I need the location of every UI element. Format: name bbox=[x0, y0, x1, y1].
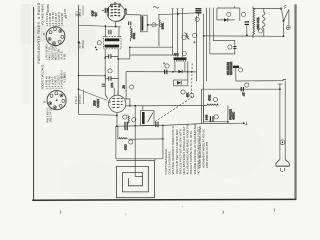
rectifier dark bar bbox=[233, 66, 239, 68]
node dot on sloped wire bbox=[177, 13, 179, 15]
wire: x=115.9 vertical from 126 bbox=[115, 126, 117, 159]
jack line top tick bbox=[278, 83, 283, 85]
wire: x=196.4 long vertical bbox=[195, 16, 197, 81]
wire: IFT2 right lead to bus bbox=[147, 24, 159, 26]
cap C-a on chain bbox=[105, 54, 118, 58]
IFT1 winding bar 2 bbox=[105, 45, 120, 48]
box right side bbox=[283, 21, 285, 37]
wire: x=117.9 down to resistor y=139 bbox=[117, 126, 119, 139]
svg-text:GT: GT bbox=[94, 12, 98, 16]
pin marks near 96,48 bbox=[95, 47, 97, 49]
wire: y=55 horizontal AVC bbox=[130, 54, 173, 56]
node dot y=89 on jack line bbox=[279, 88, 281, 90]
callout inside det box bbox=[228, 45, 232, 49]
svg-text:470K: 470K bbox=[132, 33, 136, 39]
jack dome bbox=[276, 160, 290, 167]
svg-text:AVC: AVC bbox=[174, 53, 179, 57]
label 18.3 455-4 top bbox=[74, 9, 82, 17]
wire: y=81 horizontal to jack bbox=[236, 79, 286, 81]
electrolytic cap block at 198,9-14 bbox=[195, 9, 201, 16]
socket 2 pin voltage list bbox=[46, 106, 53, 122]
svg-text:VOLTAGE MEAS.: VOLTAGE MEAS. bbox=[41, 3, 45, 25]
svg-text:3-30: 3-30 bbox=[205, 114, 209, 120]
callout above C-d bbox=[123, 115, 127, 119]
bus line 2 x=177.5 bbox=[177, 9, 179, 58]
tube V2 converter envelope bbox=[109, 95, 126, 112]
tick on y=8 wire bbox=[234, 6, 236, 8]
wire: below IFT1 down chain x=105.2 bbox=[105, 49, 108, 99]
callout above R-e bbox=[213, 98, 217, 102]
svg-text:OSC: OSC bbox=[124, 144, 128, 150]
tuning comb bar bbox=[174, 57, 187, 60]
svg-text:OSC COIL: OSC COIL bbox=[256, 16, 260, 29]
node dot bbox=[172, 71, 174, 73]
node dot switch pivot bbox=[283, 20, 285, 22]
node dot bbox=[117, 58, 119, 60]
svg-text:AND 1500 KC IF 455: AND 1500 KC IF 455 bbox=[205, 141, 209, 168]
svg-text:123456: 123456 bbox=[47, 4, 50, 13]
callout circle R bbox=[152, 23, 156, 27]
border right frame inner bbox=[295, 4, 297, 200]
wire: IFT1 left lead bbox=[104, 26, 106, 37]
small cap at 155.5-158.5,121.5-127.5 bbox=[156, 122, 158, 127]
tube V2 grid dashes bbox=[112, 98, 122, 107]
wire: corner at 126,71.5 going right y=71.8 bbox=[126, 71, 196, 73]
wire: y=126 long horizontal sloping to 123 bbox=[117, 123, 244, 126]
callout under cap block bbox=[195, 17, 199, 21]
circled plus terminal bbox=[286, 26, 290, 30]
bus line x=206.6 bbox=[206, 8, 208, 81]
svg-text:1T4: 1T4 bbox=[110, 82, 114, 87]
wire: x=239.8 vertical bbox=[239, 8, 241, 21]
bus line 1 x=172.5 bbox=[172, 9, 174, 55]
switch ticks bbox=[284, 5, 287, 8]
svg-text:RECTIFIER: RECTIFIER bbox=[230, 62, 233, 75]
BOTTOM bbox=[60, 124, 275, 216]
svg-text:D 90: D 90 bbox=[63, 72, 67, 78]
callout on dashed line bbox=[190, 93, 194, 97]
wire: y=35.9 long horizontal bbox=[204, 35, 284, 37]
dashed gang line bbox=[155, 62, 192, 121]
svg-text:B: B bbox=[42, 33, 46, 35]
callout circle left of IFT1 bbox=[97, 41, 101, 45]
coil2 stubs bbox=[263, 8, 265, 12]
cap on y=89 bbox=[241, 87, 243, 91]
pen mark 5 bbox=[273, 208, 276, 211]
svg-text:.22: .22 bbox=[122, 85, 126, 89]
node dots right of D1 bbox=[187, 71, 189, 73]
wire: x=187.8 vertical bbox=[187, 61, 189, 80]
svg-text:1R5 1T4 1S5: 1R5 1T4 1S5 bbox=[49, 106, 53, 122]
IFT1 primary cap bbox=[109, 30, 111, 35]
plus mark near 194.4,42 bbox=[193, 41, 195, 43]
osc coil dark bar bbox=[142, 112, 145, 124]
plug tip small bbox=[282, 171, 284, 173]
cap C-b on chain bbox=[105, 76, 118, 80]
oscillator tall winding x=253 bbox=[253, 6, 255, 37]
node dot bbox=[129, 105, 131, 107]
MAIN SCHEMATIC bbox=[77, 3, 291, 177]
svg-text:47K: 47K bbox=[185, 93, 189, 98]
wire: vertical x=126 from corner down to tube2 bbox=[125, 72, 127, 99]
wire: IFT1 right lead bbox=[118, 27, 120, 37]
tube V1 arc grid lead right bbox=[116, 13, 126, 22]
socket 2 bbox=[47, 91, 66, 110]
node dot bbox=[134, 105, 136, 107]
bus tops serifs bbox=[171, 8, 183, 10]
node dots on y=126 wire bbox=[116, 125, 118, 127]
node dot at padder box corner bbox=[227, 121, 229, 123]
socket 1 bbox=[46, 27, 65, 46]
svg-text:455KC: 455KC bbox=[81, 40, 85, 49]
wire: x=216.9 stub bbox=[216, 8, 218, 20]
node dot bbox=[162, 138, 164, 140]
wire: long antenna vertical line x=78.5 bbox=[78, 5, 80, 115]
node dot bbox=[246, 35, 248, 37]
callout right of R-c bbox=[132, 118, 136, 122]
wire: loop feed x=134.8 down into spiral bbox=[135, 106, 142, 177]
border bottom line bbox=[32, 198, 296, 201]
label 3S-8 455 KC bbox=[78, 40, 85, 49]
pen mark 3 bbox=[181, 206, 184, 208]
switch throw line bbox=[284, 9, 289, 25]
IFT2 box bbox=[140, 15, 147, 32]
svg-text:.05: .05 bbox=[242, 92, 246, 96]
callout near 241.8,14.9 bbox=[242, 12, 246, 16]
wire: y=89 horizontal bbox=[201, 88, 280, 90]
wire: y=47 horizontal bbox=[130, 46, 173, 48]
end tick at 246.8,123 bbox=[245, 122, 247, 125]
tube V2 cap tick left bbox=[108, 101, 111, 102]
callout circle above cap bbox=[165, 64, 169, 68]
wire: horizontal y=75.6 to cap chain bbox=[79, 75, 106, 77]
bus line 3 x=182.5 bbox=[182, 9, 184, 58]
voltage table 2 rows bbox=[45, 75, 67, 90]
tick at antenna line top bbox=[77, 14, 81, 16]
node dot bbox=[203, 35, 205, 37]
tube V1 grid-cap hook left bbox=[107, 9, 108, 11]
wire: x=235.8 vertical to y=81 bbox=[235, 68, 237, 81]
wire: tube V2 right pin to y=98.9 jog bbox=[125, 99, 130, 106]
resistor R-a vertical below V1 arc bbox=[131, 26, 133, 41]
jack line left x=279.9 bbox=[279, 84, 281, 160]
node dot bbox=[147, 24, 149, 26]
pen mark 4 bbox=[222, 211, 225, 214]
node dot bbox=[129, 47, 131, 49]
diode D2 box bbox=[174, 80, 188, 86]
callout + text right of D2 box bbox=[181, 90, 185, 94]
callout at end of R-d bbox=[129, 140, 133, 144]
cap C-c on chain bbox=[102, 84, 106, 86]
notes text block bbox=[164, 124, 209, 175]
node dot at 117,115.5 bbox=[116, 115, 118, 117]
callout circle on chain bbox=[108, 69, 112, 73]
svg-text:SOCKET VOLTAGE: SOCKET VOLTAGE bbox=[40, 64, 44, 89]
cap at 244-249, 22-25 bbox=[245, 22, 249, 25]
tube V1 top pin circles bbox=[110, 4, 112, 6]
bus line x=209.8 bbox=[209, 8, 211, 54]
cap C-d dark bars at 125-128,122-129 bbox=[125, 122, 127, 130]
jack line right x=285.2 bbox=[284, 81, 286, 160]
wire: arc end to top-right wire bbox=[125, 9, 127, 14]
svg-text:100K: 100K bbox=[160, 23, 164, 29]
node dot bbox=[115, 26, 117, 28]
IFT2 winding dark bar bbox=[141, 16, 143, 30]
callout right of padder cap bbox=[214, 115, 218, 119]
wire: y=14.9 from arc to IFT2 box bbox=[126, 14, 140, 16]
callout circle near comb bbox=[182, 52, 186, 56]
wire: y=19.9 with diode D3 bbox=[217, 19, 235, 21]
wire: IFT1 right lead long vertical to tube V2 bbox=[117, 49, 119, 95]
svg-text:B 85: B 85 bbox=[63, 53, 67, 59]
socket 1 pin voltage list bbox=[45, 44, 61, 60]
cap above R-a bbox=[129, 21, 131, 25]
tube V1 grid dashes bbox=[109, 6, 121, 16]
node dot chain bbox=[104, 57, 106, 59]
node dot on antenna line y=75.5 bbox=[78, 75, 80, 77]
bracket line by 18.3 label bbox=[82, 6, 84, 16]
svg-text:455KC: 455KC bbox=[231, 112, 235, 120]
jack tip ticks bbox=[280, 168, 284, 171]
comb legs bbox=[174, 62, 176, 72]
border right frame outer bbox=[294, 5, 296, 200]
voltage table 1 rows bbox=[45, 9, 67, 27]
jack dome base line bbox=[276, 165, 290, 167]
wire: x=246.8 vertical bbox=[246, 25, 248, 36]
tube V1 output envelope bbox=[107, 4, 125, 22]
IFT1 winding bar 1 bbox=[105, 38, 120, 41]
wire: x=129.8 vertical bbox=[129, 47, 131, 59]
wire: y=8 top horizontal bbox=[217, 7, 240, 9]
IFT1 dashed box bbox=[103, 37, 121, 49]
resistor R-e on wire 207-217 bbox=[207, 104, 218, 106]
callout circle near R-b bbox=[182, 36, 186, 40]
callout + near rectifier bbox=[239, 68, 243, 72]
loop antenna spiral bbox=[116, 161, 154, 198]
B+ squiggle mark top bbox=[153, 7, 159, 9]
pen mark 1 bbox=[59, 211, 62, 214]
small text cluster left-mid 1 bbox=[60, 51, 67, 59]
wire: x=162.9 vertical down bbox=[162, 125, 164, 158]
wire: y=158.8 horizontal bbox=[116, 158, 163, 160]
wire: grid lead diagonal to converter tube bbox=[79, 89, 108, 100]
bracket line by 17A-3 label bbox=[83, 90, 85, 105]
polarity ticks above cap bbox=[163, 62, 165, 64]
resistor R-d horizontal at 118.9-126.8,139 bbox=[118, 138, 128, 139]
border left line bbox=[33, 7, 35, 200]
wire: x=158.9 vertical with resistor bbox=[159, 14, 160, 47]
wire: antenna line bottom corner to tube2 bottom bbox=[79, 113, 117, 116]
node dot at 283.5,36.2 bbox=[283, 35, 285, 37]
wire: plate top wire y=25.6 bbox=[79, 25, 121, 27]
node dot on antenna line y=42.5 bbox=[78, 41, 80, 43]
diode D1 bbox=[178, 70, 182, 73]
node dot on antenna line y=89.2 bbox=[78, 88, 80, 90]
switch box top edge bbox=[253, 7, 282, 9]
bus line x=213.3 + corner bbox=[210, 8, 235, 54]
callout near coil bottom bbox=[258, 29, 262, 33]
bus line x=203.5 bbox=[203, 14, 205, 124]
callout at 194.8,35.3 bbox=[193, 33, 197, 37]
wire: y=138.9 to x=162.9 bbox=[128, 138, 163, 140]
diode D3 bbox=[224, 18, 227, 21]
svg-text:B+: B+ bbox=[64, 15, 68, 19]
callout near cap 89 bbox=[245, 83, 249, 87]
resistor R-c vertical at 128, 116-122 bbox=[128, 114, 129, 124]
wire: y=14 sloped top wire bbox=[159, 13, 196, 15]
electrolytic cap on y=71.8 bbox=[165, 70, 167, 75]
switch blade bbox=[281, 9, 283, 21]
svg-text:CONV: CONV bbox=[96, 99, 100, 108]
wire: y=105.7 long horizontal bbox=[125, 104, 207, 107]
LEFT PANEL bbox=[37, 2, 97, 122]
coil 2 loops x=263.8 bbox=[263, 12, 266, 29]
svg-text:B: B bbox=[43, 101, 47, 103]
wire: V1 bottom stub bbox=[115, 21, 117, 26]
connector circle on jack lines bbox=[280, 140, 285, 145]
osc coil arrow diagonal bbox=[148, 113, 153, 123]
wire: y=58.9 horizontal bbox=[118, 58, 130, 60]
padder cap dark bars bbox=[210, 116, 213, 121]
comb teeth bbox=[175, 60, 186, 62]
padder box at 203-227.9,104.9-121.8 bbox=[203, 105, 228, 122]
osc coil top stub bbox=[142, 106, 144, 111]
small text cluster left-mid 2 bbox=[60, 70, 67, 79]
pen mark 2 bbox=[124, 213, 127, 215]
osc coil box at 140.5-154,110.5-125.4 bbox=[141, 111, 155, 126]
node dot bbox=[105, 25, 107, 27]
wire: x=201.4 vertical bbox=[200, 89, 202, 123]
resistor R-b diagonal near 186,35 bbox=[185, 32, 190, 39]
svg-text:470K: 470K bbox=[207, 95, 211, 101]
label 17A-3 455 KC bbox=[74, 95, 82, 105]
diode D2 bbox=[177, 81, 181, 85]
wire: tube V2 bottom pin down bbox=[116, 112, 118, 126]
cap marks at 234.8,46-49 bbox=[233, 46, 236, 48]
callout above D3 bbox=[227, 12, 231, 16]
wire: spiral outer corner feed x=154.9 bbox=[154, 159, 156, 161]
tube V2 top stubs bbox=[113, 88, 115, 95]
